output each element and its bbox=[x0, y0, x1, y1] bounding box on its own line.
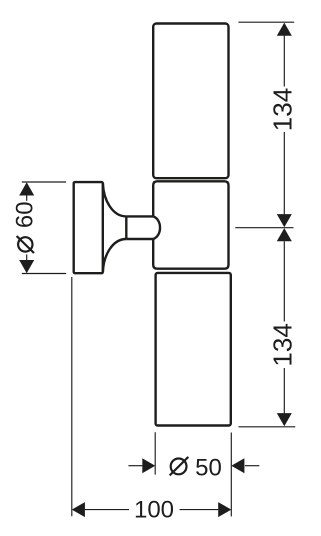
neck top edge bbox=[126, 215, 153, 217]
arrow 134 lower top bbox=[277, 228, 292, 241]
arrow 134 upper bottom bbox=[277, 214, 292, 227]
dimension line diam 60 bbox=[26, 195, 28, 260]
arm flare top curve bbox=[103, 183, 126, 216]
svg-text:50: 50 bbox=[195, 454, 222, 481]
extension line bar right bottom bbox=[230, 433, 232, 517]
svg-text:60: 60 bbox=[12, 201, 39, 228]
svg-text:134: 134 bbox=[268, 88, 298, 131]
dimension tail 100 right bbox=[180, 509, 219, 511]
dimension line 134 lower bbox=[283, 241, 285, 413]
arm collar edge bbox=[125, 216, 127, 239]
wall plate bbox=[74, 182, 103, 273]
arrow 134 lower bottom bbox=[277, 413, 292, 426]
arrow diam 50 left bbox=[142, 458, 155, 473]
arrow diam 60 top bbox=[19, 182, 34, 195]
diameter symbol for 60 bbox=[17, 236, 34, 253]
arrow 100 right bbox=[218, 502, 231, 517]
extension line mid right bbox=[235, 227, 293, 229]
arrow 134 upper top bbox=[277, 23, 292, 36]
svg-text:100: 100 bbox=[134, 497, 174, 524]
arrow diam 50 right bbox=[231, 458, 244, 473]
arrow diam 60 bottom bbox=[19, 260, 34, 273]
upper bar segment bbox=[153, 24, 228, 179]
middle bar segment bbox=[153, 181, 228, 268]
lower bar segment bbox=[156, 273, 231, 426]
extension line bottom right bbox=[239, 426, 296, 428]
neck bottom edge bbox=[126, 238, 153, 240]
extension line top right bbox=[238, 21, 294, 23]
arm flare bottom curve bbox=[103, 239, 126, 272]
dimension tail diam 50 right bbox=[245, 465, 259, 467]
dimension tail diam 50 left bbox=[128, 465, 142, 467]
extension line plate bottom bbox=[22, 273, 66, 275]
extension line wall left bbox=[71, 277, 73, 516]
diameter symbol for 50 bbox=[170, 457, 189, 476]
extension line plate top bbox=[22, 181, 66, 183]
arrow 100 left bbox=[72, 502, 85, 517]
dimension line 134 upper bbox=[283, 36, 285, 215]
extension line bar left bottom bbox=[154, 432, 156, 474]
dimension tail 100 left bbox=[85, 509, 129, 511]
neck-to-bar intersection arc bbox=[153, 216, 160, 239]
svg-text:134: 134 bbox=[268, 323, 298, 366]
